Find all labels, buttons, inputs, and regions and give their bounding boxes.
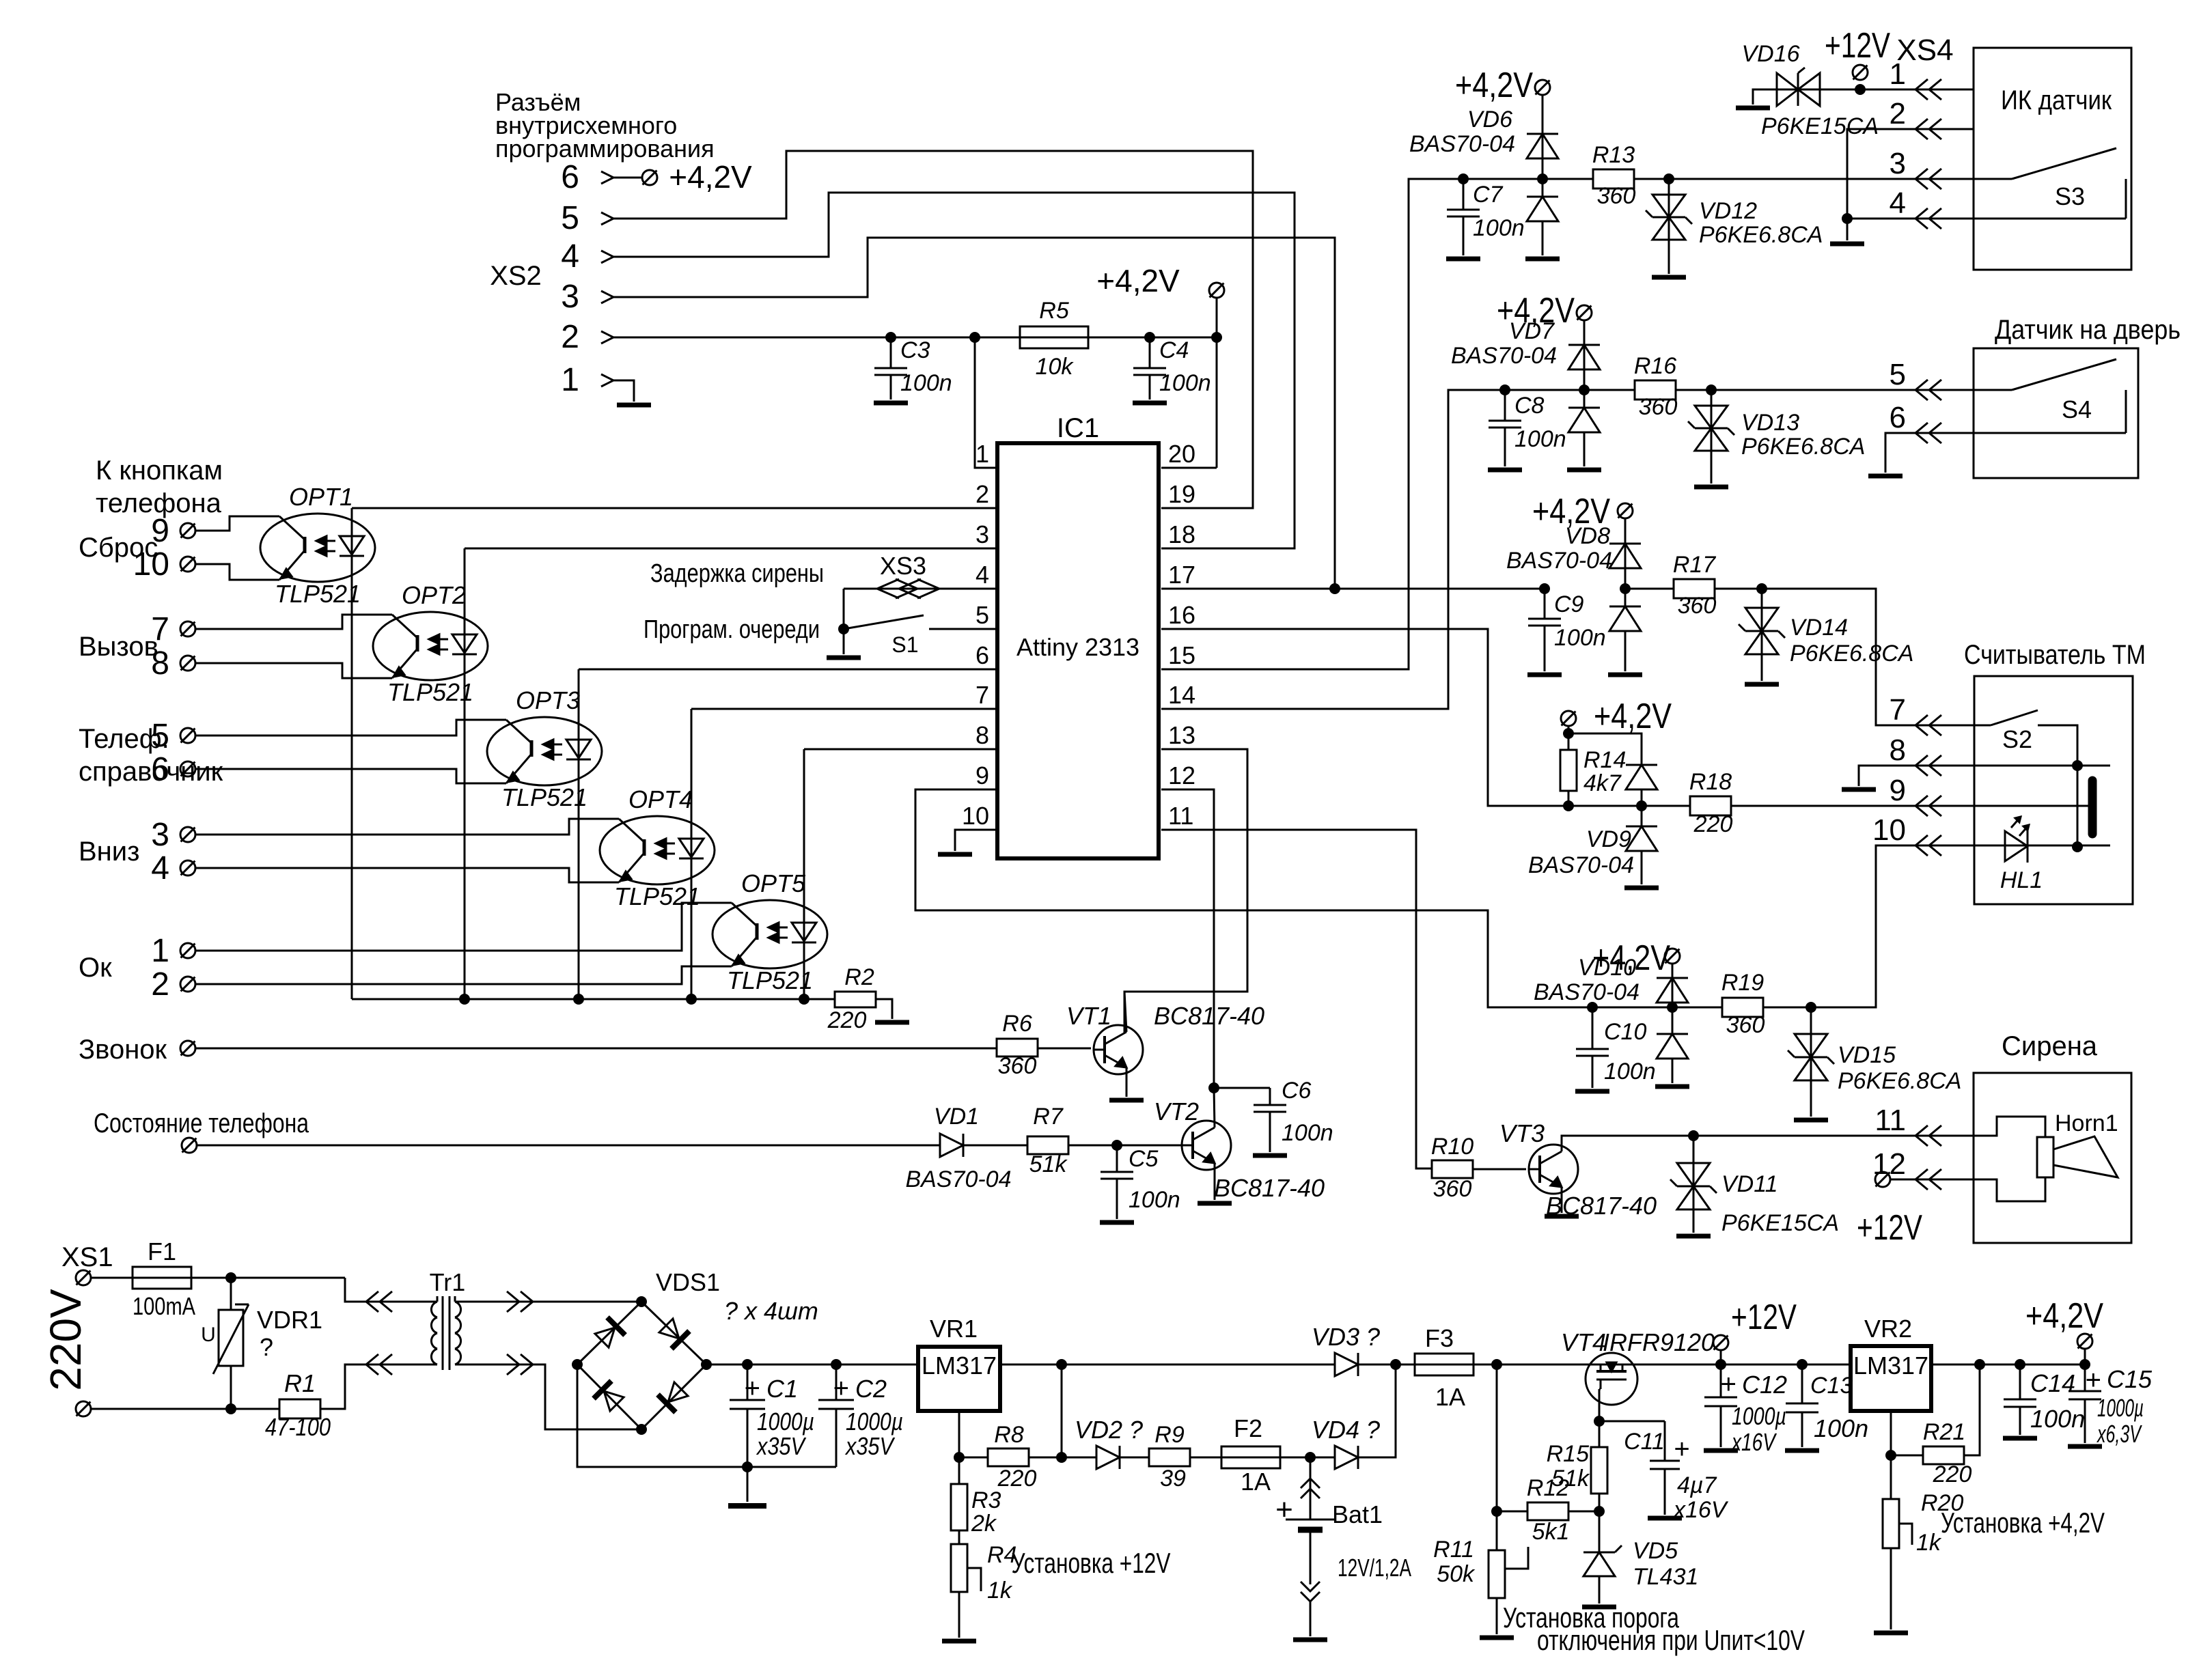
svg-text:+12V: +12V — [1731, 1298, 1797, 1337]
label R8 — [994, 1422, 1024, 1448]
svg-text:220: 220 — [827, 1007, 867, 1033]
tvs VD14 — [1739, 589, 1785, 681]
IC1 pin 19 number — [1168, 480, 1195, 508]
wire VT2 collector — [1214, 1088, 1215, 1128]
svg-text:12V/1,2A: 12V/1,2A — [1338, 1554, 1411, 1582]
svg-text:VT4: VT4 — [1561, 1328, 1606, 1356]
svg-text:100n: 100n — [1554, 625, 1606, 651]
svg-text:VD5: VD5 — [1633, 1538, 1678, 1564]
label VT2 — [1154, 1097, 1199, 1125]
label C12 v2 — [1730, 1428, 1777, 1456]
bridge diode 1 — [595, 1317, 625, 1347]
wire secondary bottom — [473, 1364, 641, 1429]
terminal Звонок — [180, 1041, 195, 1056]
label C11 v2 — [1672, 1497, 1729, 1523]
svg-text:360: 360 — [1597, 183, 1636, 209]
capacitor C14 — [2004, 1364, 2036, 1435]
diode VD9 lower — [1626, 806, 1657, 884]
wire VT2 emitter — [1214, 1163, 1216, 1200]
svg-text:50k: 50k — [1437, 1561, 1476, 1587]
ground R20 — [1874, 1631, 1908, 1636]
svg-text:7: 7 — [1890, 693, 1906, 727]
label XS3 — [880, 552, 926, 580]
label Bat1 plus — [1275, 1493, 1293, 1526]
label R19 value — [1726, 1012, 1765, 1038]
wire OPT2 anode from pin3 — [464, 548, 466, 999]
label C10 value — [1604, 1059, 1656, 1084]
svg-text:100n: 100n — [1814, 1414, 1868, 1442]
svg-text:XS2: XS2 — [490, 261, 542, 291]
TM pin 10 number — [1872, 813, 1906, 847]
IC1 pin 3 number — [976, 520, 989, 548]
wire +4,2V row2 — [1583, 320, 1586, 390]
label R9 value — [1160, 1466, 1186, 1492]
ground C6 — [1253, 1153, 1287, 1158]
svg-text:LM317: LM317 — [922, 1352, 997, 1380]
led HL1 arrows — [2011, 817, 2029, 836]
svg-text:R8: R8 — [994, 1422, 1024, 1448]
siren pin 12 number — [1872, 1147, 1906, 1181]
junction F3 out — [1491, 1359, 1502, 1370]
svg-text:C2: C2 — [855, 1375, 887, 1403]
svg-text:BAS70-04: BAS70-04 — [906, 1166, 1012, 1192]
svg-text:R2: R2 — [844, 964, 874, 990]
XS2 pin 4 number — [561, 238, 579, 275]
svg-text:100n: 100n — [1129, 1187, 1180, 1213]
svg-text:R11: R11 — [1433, 1537, 1474, 1563]
wire XS2 pin1 to ground — [613, 380, 634, 402]
pot R4 — [951, 1544, 981, 1638]
terminal 5 — [151, 718, 195, 754]
wire IC pin line OPT5 anode from pin8 — [804, 748, 997, 751]
capacitor C1 — [730, 1364, 765, 1467]
wire pin15 route — [1161, 179, 1463, 669]
label VD10 type — [1534, 979, 1639, 1005]
connector XS3 chevrons — [877, 579, 939, 598]
svg-text:x35V: x35V — [844, 1432, 895, 1460]
svg-text:4: 4 — [151, 850, 169, 886]
wire IC pin line OPT1 anode from pin2 — [352, 507, 997, 509]
label C13 — [1810, 1373, 1853, 1399]
ground C11 — [1648, 1516, 1682, 1521]
IC1 pin 7 number — [976, 681, 989, 709]
ground C3 — [874, 401, 908, 406]
wire VD2 to R9 — [1120, 1457, 1149, 1459]
wire OPT5 emitter — [195, 966, 732, 984]
wire VR2 adj — [1890, 1411, 1892, 1455]
svg-text:4k7: 4k7 — [1583, 770, 1622, 796]
resistor R7 — [1027, 1136, 1193, 1154]
capacitor C8 — [1489, 390, 1521, 466]
svg-text:К кнопкам: К кнопкам — [96, 456, 223, 486]
junction +4,2V node20 — [1211, 332, 1222, 343]
svg-text:VD14: VD14 — [1790, 615, 1848, 641]
wire OPT3 emitter — [195, 769, 506, 783]
label C15 v2 — [2097, 1420, 2142, 1448]
svg-text:VR1: VR1 — [930, 1315, 978, 1343]
junction pin4 gnd — [1842, 213, 1853, 224]
label R15 — [1547, 1441, 1589, 1467]
svg-text:VD13: VD13 — [1741, 410, 1799, 436]
capacitor C15 — [2069, 1364, 2101, 1443]
label R5 — [1039, 298, 1069, 324]
wire XS2 pin4 to IC pin18 — [613, 193, 1295, 548]
label F1 — [148, 1237, 176, 1265]
terminal 3 — [151, 817, 195, 853]
svg-text:1A: 1A — [1241, 1468, 1271, 1496]
svg-text:F2: F2 — [1234, 1414, 1262, 1442]
wire R12 row — [1497, 1364, 1527, 1511]
label C1 plus — [745, 1373, 760, 1403]
svg-text:2: 2 — [1890, 97, 1906, 130]
tvs VD13 — [1688, 390, 1734, 484]
label C6 value — [1282, 1120, 1333, 1146]
junction R14 bottom — [1563, 800, 1574, 811]
label R16 — [1634, 353, 1676, 379]
svg-text:R3: R3 — [971, 1487, 1001, 1513]
label +4,2V row1 — [1455, 66, 1533, 105]
label R1 value — [265, 1413, 331, 1441]
wire XS3 down — [843, 589, 845, 629]
bridge VDS1 frame — [577, 1302, 706, 1429]
resistor R15 — [1591, 1421, 1607, 1511]
label VD4 — [1312, 1416, 1380, 1444]
XS2 pin 5 arrow — [601, 212, 613, 225]
ground VD9 — [1624, 886, 1659, 891]
tl431 VD5 — [1583, 1511, 1622, 1604]
svg-text:3: 3 — [151, 817, 169, 853]
fuse F3 — [1415, 1354, 1474, 1375]
IC1 pin 15 number — [1168, 641, 1195, 669]
ground pin10 — [938, 852, 972, 857]
wire XS4 pin2 — [1847, 129, 1974, 219]
ground C13 — [1785, 1448, 1819, 1453]
diode VD2 — [1096, 1446, 1120, 1469]
svg-text:VD3 ?: VD3 ? — [1312, 1323, 1380, 1351]
label F1 value — [133, 1292, 195, 1320]
IC1 pin 2 number — [976, 480, 989, 508]
svg-text:R14: R14 — [1583, 747, 1626, 773]
wire VD16 to XS4.1 — [1820, 89, 1974, 91]
capacitor C4 — [1133, 337, 1166, 400]
ground C9 — [1527, 673, 1562, 677]
junction bus — [459, 994, 470, 1005]
label Телеф. справочник — [79, 724, 223, 787]
connector XS2 title — [495, 88, 715, 163]
wire F2 to VD4 — [1280, 1457, 1335, 1459]
wire OPT2 emitter — [195, 663, 392, 678]
IC1 pin 9 number — [976, 761, 989, 789]
IC1 pin 4 number — [976, 561, 989, 589]
svg-text:VDS1: VDS1 — [656, 1268, 720, 1296]
box Сирена — [1974, 1073, 2131, 1243]
wire VR2 out — [1931, 1364, 2085, 1366]
ground R4 — [942, 1639, 976, 1644]
ground VD14 — [1745, 682, 1779, 687]
capacitor C13 — [1786, 1364, 1818, 1447]
svg-text:C1: C1 — [766, 1375, 798, 1403]
transistor VT1 — [1094, 1025, 1143, 1074]
wire VT1 collector — [1124, 992, 1126, 1032]
junction bus — [686, 994, 697, 1005]
label C1 v2 — [756, 1432, 806, 1460]
label R4 — [987, 1542, 1016, 1568]
wire VT4 out rail — [1637, 1364, 1851, 1366]
wire OPT2 collector — [195, 615, 392, 629]
svg-text:2k: 2k — [971, 1511, 997, 1537]
wire secondary top — [473, 1301, 641, 1303]
switch S1 — [844, 615, 997, 629]
wire OPT4 emitter — [195, 868, 619, 882]
label C14 value — [2030, 1405, 2085, 1433]
svg-text:+12V: +12V — [1857, 1208, 1922, 1248]
terminal 9 — [151, 513, 195, 549]
ground S1 — [827, 656, 861, 660]
label R10 value — [1433, 1176, 1472, 1202]
svg-text:2: 2 — [976, 480, 989, 508]
XS2 pin 2 arrow — [601, 331, 613, 344]
wire bridge neg — [577, 1364, 836, 1467]
svg-text:+: + — [1721, 1369, 1737, 1399]
svg-text:10k: 10k — [1036, 354, 1075, 380]
wire XS2 pin2 RESET line — [613, 337, 1217, 339]
ground C14 — [2003, 1436, 2037, 1441]
svg-text:S2: S2 — [2002, 725, 2032, 753]
ground C4 — [1133, 401, 1167, 406]
svg-text:220: 220 — [1693, 811, 1733, 837]
svg-text:360: 360 — [1678, 593, 1717, 619]
switch S3 — [1974, 148, 2126, 219]
svg-text:1: 1 — [561, 362, 579, 398]
svg-text:14: 14 — [1168, 681, 1195, 709]
diode VD10 upper — [1657, 978, 1688, 1003]
svg-text:P6KE15CA: P6KE15CA — [1721, 1210, 1839, 1236]
label VD13 — [1741, 410, 1799, 436]
svg-text:?: ? — [260, 1333, 273, 1361]
junction pin1 node — [969, 332, 980, 343]
wire C6 link — [1214, 1087, 1270, 1089]
IC1 pin 1 number — [976, 440, 989, 468]
terminal +12V rail — [1713, 1335, 1728, 1350]
junction VD6 — [1537, 173, 1548, 184]
XS4 pin 1 chevron — [1915, 79, 1941, 100]
label R14 value — [1583, 770, 1622, 796]
label OPT4 TLP521 — [614, 882, 700, 910]
siren pin 11 chevron — [1915, 1125, 1941, 1146]
junction bus — [799, 994, 810, 1005]
junction S1 — [838, 624, 849, 634]
wire F3 out — [1474, 1364, 1586, 1366]
label R11 value — [1437, 1561, 1476, 1587]
box ИК датчик — [1974, 48, 2131, 270]
wire +4,2V row3 — [1624, 518, 1627, 589]
resistor R8 — [959, 1448, 1062, 1466]
label VD12 type — [1699, 222, 1823, 248]
svg-text:R5: R5 — [1039, 298, 1069, 324]
label VT4 type — [1603, 1328, 1715, 1356]
XS4 pin 2 chevron — [1915, 119, 1941, 139]
label R10 — [1431, 1134, 1474, 1160]
capacitor C3 — [874, 337, 907, 400]
svg-text:C5: C5 — [1129, 1146, 1159, 1172]
svg-text:+4,2V: +4,2V — [669, 159, 752, 195]
label VD6 type — [1409, 131, 1515, 157]
terminal +4,2V row5 — [1665, 949, 1680, 964]
junction C13 — [1797, 1359, 1808, 1370]
label C10 — [1604, 1019, 1646, 1045]
wire VT3 emitter — [1561, 1187, 1563, 1213]
label Вниз — [79, 837, 139, 867]
XS2 pin 1 arrow — [601, 374, 613, 387]
wire row1 bus — [1409, 178, 1593, 180]
label R20 — [1921, 1490, 1963, 1516]
svg-text:1: 1 — [976, 440, 989, 468]
label VD2 — [1075, 1416, 1143, 1444]
resistor R1 — [279, 1364, 419, 1418]
svg-text:360: 360 — [998, 1053, 1037, 1079]
label C11 — [1624, 1429, 1665, 1455]
svg-text:TL431: TL431 — [1633, 1564, 1698, 1590]
junction row4 term — [1563, 728, 1574, 739]
junction VD9 — [1636, 800, 1647, 811]
svg-text:VD7: VD7 — [1509, 318, 1555, 344]
IC1 pin 16 number — [1168, 601, 1195, 629]
label R11 — [1433, 1537, 1474, 1563]
svg-text:VR2: VR2 — [1864, 1315, 1912, 1343]
svg-text:C6: C6 — [1282, 1078, 1312, 1104]
wire rail VR1 out — [1000, 1364, 1415, 1366]
svg-text:5: 5 — [151, 718, 169, 754]
diode VD10 lower — [1657, 1007, 1688, 1083]
label VD8 type — [1506, 548, 1612, 574]
pot R11 — [1489, 1511, 1528, 1634]
svg-text:BC817-40: BC817-40 — [1214, 1174, 1325, 1202]
junction VD8 — [1620, 583, 1631, 594]
label R2 value — [827, 1007, 867, 1033]
wire row3 to TM pin7 — [1762, 589, 1974, 725]
svg-text:20: 20 — [1168, 440, 1195, 468]
label F3 — [1425, 1324, 1454, 1352]
label R15 value — [1551, 1466, 1590, 1492]
svg-text:R6: R6 — [1002, 1011, 1032, 1037]
svg-text:VD16: VD16 — [1741, 41, 1799, 67]
svg-text:P6KE6.8CA: P6KE6.8CA — [1790, 641, 1913, 667]
svg-text:2: 2 — [561, 319, 579, 355]
TM pin 7 chevron — [1915, 715, 1941, 736]
junction VD13 — [1706, 384, 1717, 395]
ground XS4 pin6 — [1868, 474, 1903, 479]
label C7 — [1473, 182, 1504, 208]
junction VR2 adj — [1885, 1450, 1896, 1461]
svg-text:VD10: VD10 — [1578, 955, 1636, 981]
label C2 value — [846, 1408, 903, 1436]
svg-text:VD12: VD12 — [1699, 198, 1757, 224]
ground VD16 — [1736, 106, 1770, 111]
label VD15 — [1838, 1042, 1896, 1068]
label C2 v2 — [844, 1432, 895, 1460]
resistor R12 — [1527, 1502, 1599, 1520]
svg-text:39: 39 — [1160, 1466, 1186, 1492]
diode VD3 — [1335, 1353, 1358, 1376]
label R7 — [1033, 1104, 1064, 1130]
svg-text:2: 2 — [151, 966, 169, 1003]
speaker Horn1 body — [1974, 1117, 2053, 1201]
label F3 value — [1435, 1383, 1465, 1411]
svg-text:VD1: VD1 — [934, 1104, 979, 1130]
svg-text:Attiny 2313: Attiny 2313 — [1016, 633, 1139, 661]
svg-text:19: 19 — [1168, 480, 1195, 508]
label OPT5 TLP521 — [727, 966, 813, 994]
switch S4 — [1974, 359, 2126, 433]
diode VD1 — [940, 1134, 963, 1157]
capacitor C5 — [1101, 1145, 1133, 1219]
IC1 pin 18 number — [1168, 520, 1195, 548]
junction VD7 — [1579, 384, 1590, 395]
XS2 pin 2 number — [561, 319, 579, 355]
svg-text:F1: F1 — [148, 1237, 176, 1265]
svg-text:100n: 100n — [900, 370, 952, 396]
svg-text:R13: R13 — [1592, 142, 1635, 168]
label S2 — [2002, 725, 2032, 753]
svg-text:4µ7: 4µ7 — [1677, 1472, 1717, 1498]
fuse F1 — [133, 1267, 191, 1289]
resistor R9 — [1149, 1448, 1222, 1466]
resistor R5 — [975, 326, 1150, 348]
wire pin14 route — [1161, 390, 1505, 709]
ground VD11 — [1676, 1234, 1711, 1239]
svg-text:9: 9 — [976, 761, 989, 789]
wire row4 bus — [1488, 805, 1690, 807]
XS4 pin 1 number — [1890, 57, 1906, 91]
label VD11 type — [1721, 1210, 1839, 1236]
svg-text:16: 16 — [1168, 601, 1195, 629]
svg-text:+: + — [1275, 1493, 1293, 1526]
label R6 — [1002, 1011, 1032, 1037]
svg-text:6: 6 — [976, 641, 989, 669]
terminal XS1 top — [76, 1270, 91, 1285]
svg-text:TLP521: TLP521 — [387, 678, 473, 706]
optocoupler OPT5 — [712, 900, 827, 968]
junction bus — [573, 994, 584, 1005]
svg-text:C12: C12 — [1742, 1371, 1787, 1399]
label Установка порога — [1503, 1601, 1679, 1634]
label +4,2V row4 — [1594, 697, 1672, 736]
svg-text:100n: 100n — [1514, 426, 1566, 452]
diode VD7 lower — [1568, 390, 1600, 466]
wire siren 12 — [1890, 1179, 1974, 1181]
wire TM pin9 stub — [1974, 805, 2088, 807]
wire pin11 route — [1161, 830, 1432, 1168]
junction bridge bottom — [636, 1424, 647, 1435]
svg-text:8: 8 — [976, 721, 989, 749]
tvs VD11 — [1670, 1136, 1717, 1233]
svg-text:100mA: 100mA — [133, 1292, 195, 1320]
junction bridge top — [636, 1296, 647, 1307]
wire row2 to XS4.5 — [1711, 389, 1974, 391]
svg-text:BAS70-04: BAS70-04 — [1409, 131, 1515, 157]
terminal 4 — [151, 850, 195, 886]
TM pin 9 number — [1890, 774, 1906, 807]
svg-text:47-100: 47-100 — [265, 1413, 331, 1441]
svg-text:+4,2V: +4,2V — [1594, 697, 1672, 736]
svg-text:VD15: VD15 — [1838, 1042, 1896, 1068]
svg-text:+4,2V: +4,2V — [2025, 1296, 2103, 1336]
label Bat1 value — [1338, 1554, 1411, 1582]
label C7 value — [1473, 215, 1525, 241]
svg-text:360: 360 — [1726, 1012, 1765, 1038]
svg-text:TLP521: TLP521 — [727, 966, 813, 994]
junction C14 — [2015, 1359, 2025, 1370]
